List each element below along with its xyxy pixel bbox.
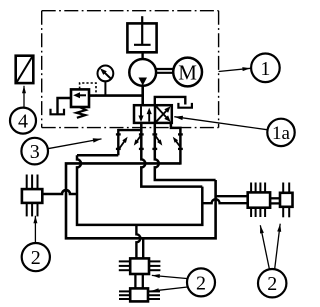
- svg-text:2: 2: [267, 273, 277, 295]
- pressure gauge: [98, 66, 114, 97]
- lubrication point box bottom upper (2): [119, 258, 161, 274]
- label circle 2 right with leaders: [258, 224, 286, 298]
- relief valve pilot line (dashed): [80, 83, 96, 95]
- lubrication point box right small (2): [280, 183, 293, 218]
- label circle 2 middle with leaders: [151, 268, 215, 296]
- svg-text:M: M: [178, 60, 197, 84]
- feed line to left lubrication point (hop over outer line): [42, 190, 77, 194]
- metering unit pipe 2: [134, 123, 203, 187]
- tank reservoir: [127, 16, 156, 52]
- feed lines to right lubrication points: [202, 196, 247, 203]
- lubrication point box right large (2): [248, 183, 270, 218]
- flow indicator 4 (rect with diagonal): [16, 56, 34, 83]
- label circle 1a with leader: [174, 116, 294, 146]
- lubrication point box bottom lower (2): [119, 288, 160, 301]
- label circle 3 with leader: [21, 138, 101, 165]
- svg-text:2: 2: [31, 247, 41, 269]
- label circle 1 with leader: [219, 54, 280, 83]
- pump delivery line: [141, 86, 144, 106]
- drain tank symbol (open box): [51, 109, 65, 115]
- relief valve: [71, 89, 89, 107]
- metering unit pipe 1: [116, 129, 142, 155]
- valve drain line to tank: [155, 97, 186, 105]
- metering unit pipe 3: [152, 123, 215, 180]
- label circle 4 with leader: [10, 86, 36, 134]
- electric motor M: [173, 58, 202, 87]
- pump: [129, 59, 156, 86]
- inner distribution line: [77, 155, 202, 225]
- lubrication point box left (2): [22, 175, 42, 217]
- svg-text:2: 2: [196, 272, 206, 294]
- outer distribution line: [66, 163, 216, 238]
- connector between right points: [270, 198, 280, 203]
- feed lines to bottom lubrication points: [136, 225, 143, 259]
- svg-text:4: 4: [18, 111, 28, 133]
- pressure line relief valve to pump line: [89, 94, 144, 97]
- relief valve drain line: [58, 98, 72, 114]
- drain tank symbol at valve: [178, 103, 192, 108]
- directional control valve 1a: [134, 105, 172, 123]
- relief valve spring: [76, 107, 85, 118]
- svg-text:1: 1: [260, 58, 270, 80]
- metering unit pipe 4: [171, 123, 183, 165]
- coupling shaft (double line): [156, 69, 173, 73]
- svg-text:3: 3: [30, 141, 40, 163]
- label circle 2 left with leader: [22, 216, 50, 271]
- enclosure dash-dot boundary of pump unit 1: [42, 11, 219, 128]
- suction line tank to pump: [141, 52, 143, 59]
- connecting lines between bottom points: [135, 274, 142, 288]
- svg-text:1a: 1a: [272, 123, 291, 144]
